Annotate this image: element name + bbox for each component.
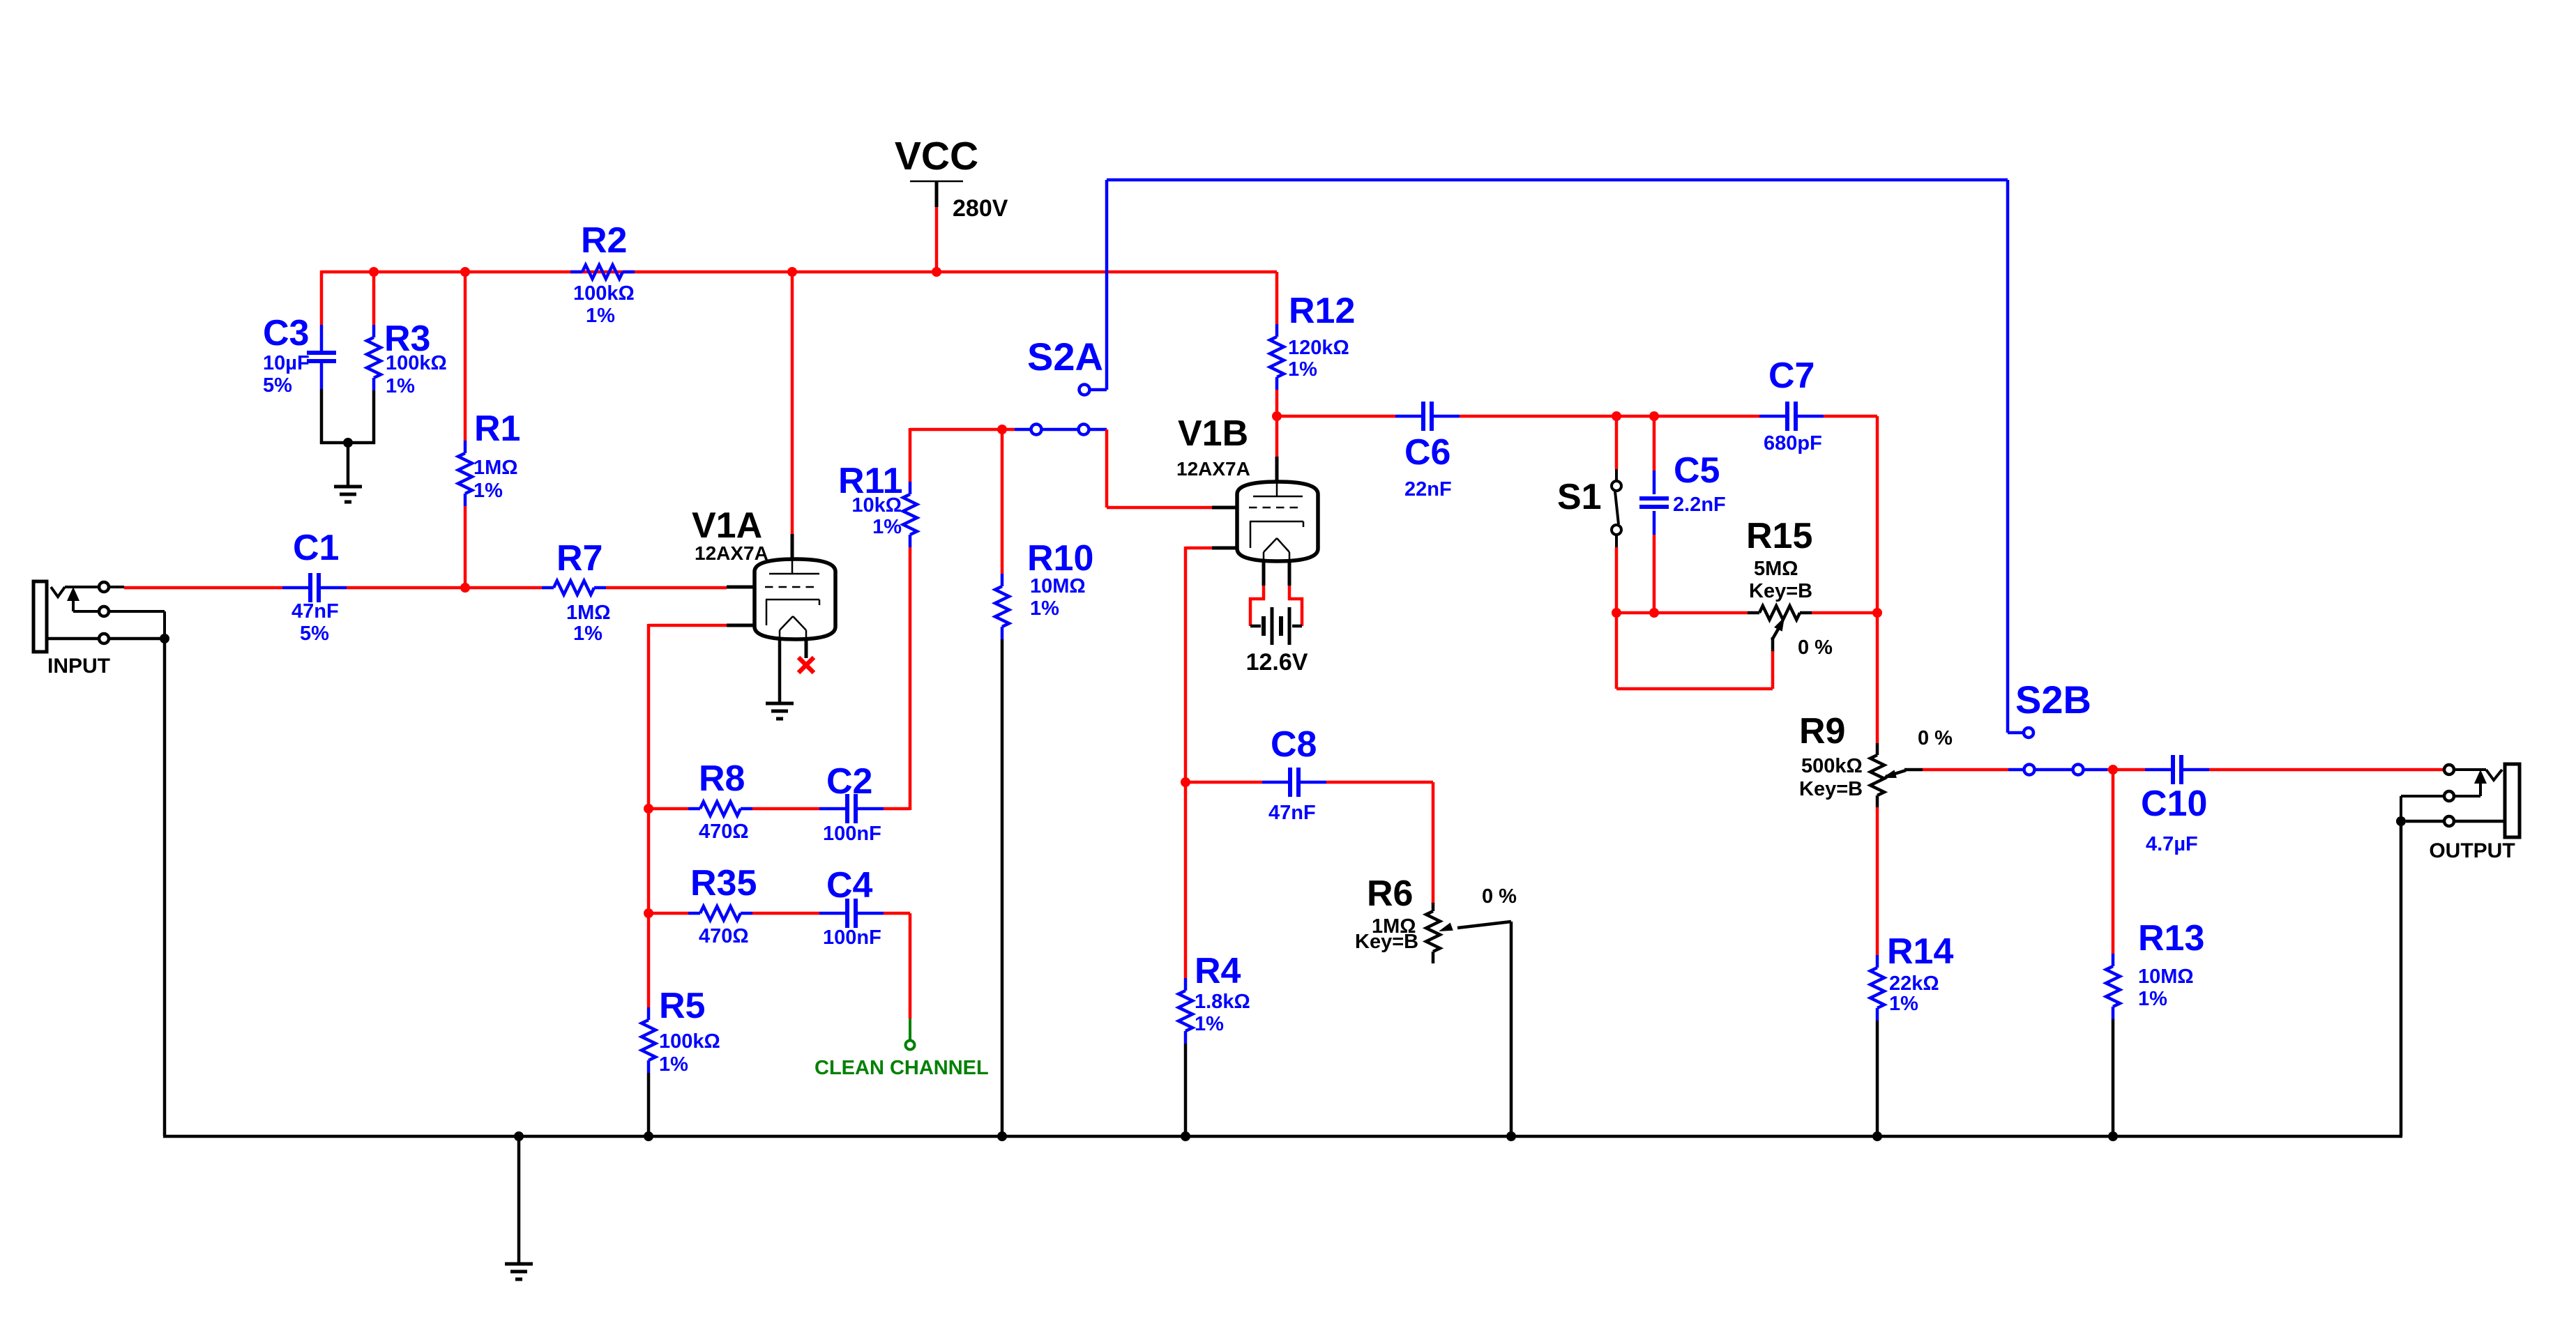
node R1 rail junction [460, 267, 470, 277]
wire R9 wiper to S2B row [1923, 768, 2008, 772]
svg-text:4.7µF: 4.7µF [2146, 833, 2198, 855]
svg-text:2.2nF: 2.2nF [1673, 494, 1726, 516]
potentiometer R15 [1748, 611, 1759, 615]
svg-text:C3: C3 [263, 313, 309, 353]
resistor R10 [1001, 574, 1004, 586]
node S1 top junction [1612, 411, 1621, 421]
wire C6 to S1 node [1460, 415, 1616, 418]
wire R1 bottom [464, 506, 467, 588]
battery V2 12.6V heater supply [1250, 625, 1261, 628]
svg-text:47nF: 47nF [1268, 802, 1316, 824]
wire R12 bottom [1275, 390, 1279, 416]
node C5 top junction [1649, 411, 1659, 421]
triode V1B [1275, 457, 1279, 482]
svg-text:12AX7A: 12AX7A [1176, 458, 1250, 480]
node C5 bottom junction [1649, 608, 1659, 618]
connector CLEAN CHANNEL [909, 1019, 911, 1040]
node VCC rail junction [932, 267, 941, 277]
svg-text:0 %: 0 % [1798, 636, 1833, 659]
ground C3/R3 [347, 443, 350, 487]
node R10 junction [997, 425, 1007, 434]
power VCC symbol [910, 181, 963, 183]
node bus ground stem [514, 1131, 524, 1141]
capacitor C10 [2145, 768, 2172, 772]
wire R15 right [1812, 611, 1877, 615]
ground main [517, 1136, 521, 1264]
wire V1B cathode to C8/R4 [1185, 547, 1212, 550]
node R13 bus junction [2108, 1131, 2118, 1141]
resistor R12 [1275, 272, 1279, 324]
svg-text:1%: 1% [1030, 597, 1059, 620]
svg-text:INPUT: INPUT [47, 655, 110, 678]
wire R10 top [1001, 429, 1004, 574]
svg-text:1%: 1% [586, 305, 615, 327]
wire S2A up to top rail [1105, 180, 1109, 390]
svg-text:R8: R8 [699, 758, 745, 799]
node R15 left junction [1612, 608, 1621, 618]
svg-text:Key=B: Key=B [1799, 778, 1863, 800]
svg-text:R7: R7 [556, 538, 603, 579]
svg-text:VCC: VCC [895, 134, 978, 178]
svg-text:C1: C1 [293, 528, 339, 568]
wire V1A heater pin to ground [778, 638, 782, 703]
svg-text:470Ω: 470Ω [699, 821, 749, 843]
svg-text:12AX7A: 12AX7A [695, 542, 768, 564]
svg-text:C8: C8 [1271, 724, 1317, 765]
wire C3-R3 bottom link [320, 441, 375, 445]
node R15 right junction [1872, 608, 1882, 618]
wire R1 top [464, 272, 467, 441]
svg-text:1MΩ: 1MΩ [473, 457, 518, 479]
resistor R35 [688, 912, 700, 915]
wire R4 to ground bus [1184, 1044, 1188, 1136]
node R35 junction [644, 908, 653, 918]
svg-text:R14: R14 [1887, 931, 1953, 972]
svg-text:R6: R6 [1367, 874, 1413, 914]
wire V1B heater pins [1262, 560, 1266, 586]
svg-text:0 %: 0 % [1482, 885, 1517, 908]
pin V1A unconnected marker [805, 638, 808, 658]
svg-text:Key=B: Key=B [1355, 931, 1418, 953]
switch S1 [1615, 416, 1619, 469]
wire anode stub [1275, 416, 1279, 457]
wire C2 up to R11 [884, 807, 910, 811]
svg-text:OUTPUT: OUTPUT [2429, 839, 2515, 862]
node C10/R13 junction [2108, 765, 2118, 775]
svg-text:22nF: 22nF [1404, 478, 1452, 501]
node V1A anode rail junction [787, 267, 797, 277]
svg-text:R10: R10 [1027, 538, 1093, 579]
wire to C10 [2107, 768, 2145, 772]
svg-text:V1B: V1B [1178, 413, 1248, 454]
resistor R7 [542, 586, 554, 590]
svg-text:R13: R13 [2138, 918, 2204, 959]
svg-text:1%: 1% [386, 375, 415, 397]
resistor R3 [372, 270, 376, 325]
capacitor C2 [819, 807, 846, 811]
connector INPUT jack [33, 581, 47, 652]
svg-text:R9: R9 [1799, 711, 1845, 752]
capacitor C8 [1262, 781, 1289, 784]
wire row to S2A [909, 428, 912, 431]
resistor R4 [1184, 978, 1188, 991]
wire C5 node to C7 [1654, 415, 1759, 418]
wire S2A to V1B grid [1089, 428, 1107, 432]
potentiometer R6 [1432, 903, 1435, 911]
capacitor C3 [320, 325, 324, 351]
wire C8 left [1185, 781, 1262, 784]
svg-text:R4: R4 [1195, 951, 1241, 991]
svg-text:0 %: 0 % [1918, 727, 1953, 749]
resistor R5 [647, 1007, 651, 1020]
resistor R11 [909, 429, 912, 482]
node C3/R3 ground junction [343, 438, 353, 448]
node R6 bus junction [1506, 1131, 1516, 1141]
svg-text:1.8kΩ: 1.8kΩ [1195, 991, 1250, 1013]
svg-text:500kΩ: 500kΩ [1801, 755, 1863, 777]
wire R14 to ground bus [1876, 1021, 1879, 1136]
svg-text:C4: C4 [826, 865, 873, 906]
capacitor C4 [819, 912, 846, 915]
resistor R8 [688, 807, 700, 811]
wire C8 to R6 [1326, 781, 1433, 784]
svg-text:Key=B: Key=B [1749, 580, 1812, 602]
svg-text:5%: 5% [263, 374, 292, 397]
wire blue rail down to S2B [2006, 180, 2010, 733]
wire R35 lead-in [649, 912, 688, 915]
wire V1A anode [791, 272, 794, 534]
svg-text:1%: 1% [1889, 993, 1918, 1015]
wire C7 to right column [1824, 415, 1877, 418]
svg-text:22kΩ: 22kΩ [1889, 972, 1939, 995]
svg-text:10MΩ: 10MΩ [1030, 575, 1086, 597]
wire R8 lead-in [649, 807, 688, 811]
wire OUTPUT sleeve to ground bus [2400, 821, 2403, 1136]
resistor R2 [570, 270, 582, 274]
wire V1A cathode [649, 624, 727, 627]
svg-text:CLEAN CHANNEL: CLEAN CHANNEL [815, 1057, 989, 1079]
svg-text:C2: C2 [826, 761, 872, 802]
wire R6 wiper to ground bus [1510, 922, 1513, 1136]
wire C3 top [320, 270, 324, 325]
wire R9 to R14 [1876, 807, 1879, 955]
svg-text:100kΩ: 100kΩ [573, 282, 635, 305]
wire B+ rail [321, 270, 1277, 274]
svg-text:R35: R35 [690, 863, 757, 903]
ground V1A [766, 702, 794, 705]
wire C5 bottom [1653, 535, 1656, 613]
svg-text:1%: 1% [2138, 988, 2167, 1010]
connector OUTPUT jack [2505, 764, 2520, 837]
svg-text:C6: C6 [1404, 432, 1450, 473]
wire R15 node down to R9 [1876, 613, 1879, 743]
svg-text:1%: 1% [473, 480, 503, 502]
resistor R13 [2112, 954, 2115, 966]
svg-text:R5: R5 [659, 986, 705, 1026]
svg-text:680pF: 680pF [1764, 432, 1822, 455]
svg-text:120kΩ: 120kΩ [1288, 337, 1349, 359]
svg-text:280V: 280V [953, 195, 1008, 222]
svg-text:10µF: 10µF [263, 352, 310, 374]
wire R35-C4 [752, 912, 819, 915]
node R4 bus junction [1181, 1131, 1190, 1141]
wire R13 top [2112, 770, 2115, 954]
node R14 bus junction [1872, 1131, 1882, 1141]
svg-text:12.6V: 12.6V [1246, 649, 1308, 676]
node C1/R1/R7 junction [460, 583, 470, 593]
wire ground bus [163, 639, 167, 1136]
svg-text:47nF: 47nF [291, 600, 339, 623]
wire R7 to V1A grid [606, 586, 727, 590]
svg-text:1%: 1% [872, 516, 902, 538]
svg-text:R12: R12 [1289, 291, 1355, 331]
svg-text:10MΩ: 10MΩ [2138, 966, 2194, 988]
node R8 junction [644, 804, 653, 814]
switch S2A [1015, 428, 1031, 432]
svg-text:C7: C7 [1768, 356, 1814, 396]
svg-text:R1: R1 [474, 409, 520, 449]
wire S1 bottom [1615, 547, 1619, 613]
svg-text:5%: 5% [300, 623, 329, 645]
svg-text:S1: S1 [1557, 477, 1602, 517]
svg-text:1MΩ: 1MΩ [566, 602, 611, 624]
svg-text:R15: R15 [1746, 516, 1812, 556]
svg-text:5MΩ: 5MΩ [1754, 558, 1798, 580]
wire C4 down to connector [884, 912, 910, 915]
resistor R1 [464, 441, 467, 453]
node INPUT sleeve junction [160, 634, 169, 643]
svg-text:100kΩ: 100kΩ [386, 352, 447, 374]
wire C3 bottom [320, 389, 324, 444]
node V1B anode junction [1272, 411, 1282, 421]
svg-text:1%: 1% [1288, 358, 1317, 381]
svg-text:V1A: V1A [692, 505, 762, 546]
wire R3 bottom [372, 390, 376, 444]
node R10 bus junction [997, 1131, 1007, 1141]
wire node to R7 [465, 586, 542, 590]
wire input tip [124, 586, 282, 590]
node R5 bus junction [644, 1131, 653, 1141]
capacitor C7 [1759, 415, 1786, 418]
wire C10 to output [2209, 768, 2444, 772]
svg-text:1%: 1% [1195, 1013, 1224, 1035]
capacitor C6 [1395, 415, 1422, 418]
wire R5 to ground bus [647, 1073, 651, 1136]
node C8 junction [1181, 777, 1190, 787]
wire R15 row left [1616, 611, 1654, 615]
svg-text:C5: C5 [1674, 450, 1720, 491]
svg-text:10kΩ: 10kΩ [851, 494, 902, 517]
capacitor C5 [1653, 416, 1656, 471]
capacitor C1 [282, 586, 309, 590]
wire top blue rail [1107, 178, 2008, 182]
resistor R14 [1876, 955, 1879, 968]
triode V1A [791, 534, 794, 559]
svg-text:R2: R2 [581, 220, 627, 261]
svg-text:100nF: 100nF [823, 926, 881, 949]
wire to C6 [1277, 415, 1395, 418]
switch S2B [2008, 731, 2023, 735]
svg-text:100kΩ: 100kΩ [659, 1030, 720, 1053]
svg-text:S2B: S2B [2015, 678, 2091, 722]
node OUTPUT sleeve junction [2396, 816, 2406, 826]
svg-text:100nF: 100nF [823, 823, 881, 845]
wire C1 to node [347, 586, 465, 590]
potentiometer R9 [1876, 743, 1879, 755]
wire R15 wiper loop [1771, 651, 1775, 689]
svg-text:470Ω: 470Ω [699, 925, 749, 947]
wire R10 to ground bus [1001, 639, 1004, 1136]
svg-text:C10: C10 [2141, 784, 2207, 824]
svg-text:1%: 1% [573, 623, 603, 645]
svg-text:1%: 1% [659, 1053, 688, 1076]
wire R13 to ground bus [2112, 1019, 2115, 1136]
svg-text:S2A: S2A [1027, 335, 1103, 379]
node R3 rail junction [369, 267, 379, 277]
wire VCC stem [935, 207, 939, 272]
wire R8-C2 [752, 807, 819, 811]
